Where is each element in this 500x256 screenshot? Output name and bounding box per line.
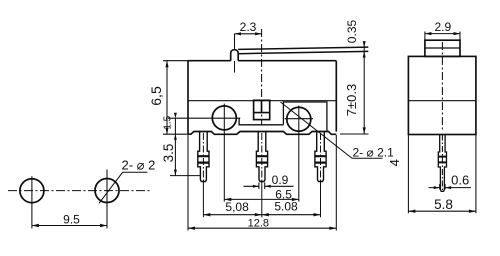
- svg-text:2.9: 2.9: [434, 20, 451, 34]
- side case parting line: [408, 100, 476, 102]
- dimension 6.5 bottom line: [224, 198, 298, 200]
- svg-text:7±0.3: 7±0.3: [344, 84, 359, 116]
- terminal pin right: [315, 132, 326, 182]
- lever bottom line: [238, 51, 368, 53]
- dimension 3.5 arrow bottom: [174, 170, 177, 176]
- side button mid line: [425, 47, 460, 49]
- dimension 5.08 line: [203, 214, 320, 216]
- dimension 0.35 and 7+-0.3 vertical line: [363, 44, 365, 134]
- dimension 7+-0.3 extension line bottom: [340, 133, 369, 135]
- dimension 2.9 arrow right: [454, 32, 461, 35]
- dimension 0.6 arrow left: [434, 186, 440, 189]
- dimension 5.08 arrow far left: [203, 213, 210, 216]
- terminal pin left: [198, 132, 209, 182]
- common contact square vertical divider: [261, 100, 263, 112]
- svg-text:0.6: 0.6: [451, 172, 469, 187]
- hole circle right vertical centerline: [106, 170, 108, 229]
- side terminal pin: [438, 135, 446, 192]
- plunger inner line: [234, 61, 236, 73]
- inner hole left vertical centerline extension to 6.5 dim: [223, 104, 225, 202]
- dimension 0.9 arrow right: [265, 185, 271, 188]
- dimension 2.9 line: [425, 33, 460, 35]
- svg-text:5,08: 5,08: [225, 200, 249, 214]
- terminal pin left centerline extension to 5.08 dim: [202, 133, 204, 181]
- dimension 5.08 arrows middle: [255, 213, 269, 216]
- svg-text:9.5: 9.5: [63, 213, 80, 227]
- dimension 0.6 line: [429, 187, 471, 189]
- dimension 2.3 line: [235, 33, 262, 35]
- svg-text:5.08: 5.08: [274, 199, 298, 213]
- body bottom contour with terminal bosses: [188, 132, 336, 135]
- svg-text:0.9: 0.9: [272, 173, 289, 187]
- dimension 12.8 extension lines: [188, 135, 336, 231]
- svg-text:6,5: 6,5: [148, 86, 164, 106]
- side body outline: [408, 56, 476, 134]
- hole circle left: [20, 179, 44, 203]
- svg-text:4: 4: [387, 159, 402, 166]
- common contact square horizontal divider: [254, 112, 270, 114]
- dimension 0.9 arrow left: [253, 185, 259, 188]
- dimension 9.5 arrow right: [100, 224, 107, 227]
- dimension 0.9 line: [244, 185, 294, 187]
- dimension 6.5 bottom arrow right: [292, 198, 299, 201]
- dimension 2.9 extension lines: [425, 32, 460, 41]
- horizontal dash-dot centerline through both holes: [8, 190, 151, 192]
- dimension 1.5 and 3.5 line: [174, 118, 176, 175]
- svg-text:2- ⌀ 2: 2- ⌀ 2: [122, 158, 156, 173]
- body right edge: [335, 61, 337, 132]
- dimension 5.8 extension lines: [408, 135, 476, 214]
- terminal pin middle: [256, 132, 267, 182]
- common contact square outline: [254, 100, 270, 119]
- inner hole circle right: [287, 107, 311, 131]
- svg-text:12.8: 12.8: [248, 218, 269, 230]
- dimension 6.5 left extension line bottom: [163, 133, 188, 135]
- side pin centerline: [441, 135, 443, 193]
- dimension 2.3 extension line through plunger: [234, 34, 236, 49]
- leader line for 2- dia 2.1 label: [281, 102, 383, 158]
- side vertical dash-dot centerline: [441, 42, 443, 131]
- svg-text:5.8: 5.8: [434, 197, 453, 212]
- dimension 12.8 line: [188, 227, 336, 229]
- body left edge: [187, 61, 189, 135]
- body top edge: [188, 60, 336, 62]
- dimension 5.8 line: [408, 210, 476, 212]
- body vertical dash-dot centerline: [261, 29, 263, 126]
- dimension 0.35 arrow lower / 7 dim top arrow: [363, 52, 366, 58]
- lever top line: [238, 47, 368, 49]
- inner hole left horizontal crosshair and 1.5 extension line: [168, 117, 240, 119]
- dimension 12.8 arrow left: [188, 227, 195, 230]
- dimension 6.5 left extension line top: [163, 60, 188, 62]
- svg-text:1.5: 1.5: [162, 115, 173, 129]
- inner hole right horizontal crosshair: [285, 118, 313, 120]
- svg-text:0.35: 0.35: [345, 19, 359, 43]
- dimension 7+-0.3 arrow bottom: [363, 127, 366, 134]
- hole circle right: [95, 179, 119, 203]
- internal floor line: [239, 118, 283, 125]
- dimension 5.8 arrow left: [408, 210, 415, 213]
- svg-text:3.5: 3.5: [161, 144, 176, 163]
- dimension 2.3 arrow left: [235, 32, 242, 35]
- terminal pin right centerline extension to 5.08 dim: [320, 133, 322, 181]
- pocket recess around right hole: [283, 102, 327, 131]
- dimension 6.5 left line: [166, 61, 168, 135]
- dimension 0.35 arrow upper: [363, 41, 366, 47]
- dimension 1.5 arrow top: [174, 113, 177, 119]
- dimension 9.5 line: [32, 225, 107, 227]
- terminal pin middle centerline extension to 5.08 dim: [261, 133, 263, 181]
- dimension 6.5 left arrow top: [165, 61, 168, 67]
- dimension 6.5 left arrow bottom: [165, 128, 168, 135]
- dimension 5.8 arrow right: [469, 210, 476, 213]
- dimension 0.6 extension lines: [440, 184, 445, 190]
- dimension 2.9 arrow left: [425, 32, 432, 35]
- svg-text:2- ⌀ 2.1: 2- ⌀ 2.1: [353, 146, 395, 160]
- leader line for 2- dia 2 label: [99, 172, 147, 203]
- svg-text:2.3: 2.3: [240, 20, 257, 34]
- case parting line: [188, 100, 336, 102]
- inner hole right vertical centerline extension to 6.5 dim: [298, 106, 300, 202]
- inner hole circle left: [212, 106, 236, 130]
- dimension 3.5 extension line bottom: [170, 175, 200, 177]
- dimension 0.6 arrow right: [445, 186, 451, 189]
- dimension 0.9 extension lines at middle pin tip: [259, 183, 265, 190]
- dimension 9.5 arrow left: [32, 224, 39, 227]
- dimension 1.5 arrow bottom: [174, 134, 177, 140]
- plunger button: [231, 50, 239, 61]
- dimension 6.5 bottom arrow left: [224, 198, 231, 201]
- side button outline: [425, 40, 460, 56]
- dimension 5.08 arrow far right: [314, 213, 321, 216]
- dimension 2.3 arrow right: [255, 32, 262, 35]
- dimension 12.8 arrow right: [329, 227, 336, 230]
- hole circle left vertical centerline: [31, 176, 33, 228]
